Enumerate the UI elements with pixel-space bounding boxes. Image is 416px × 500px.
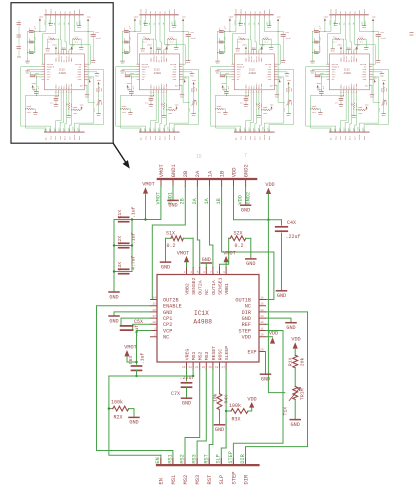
schematic thumbnail 1	[21, 8, 104, 140]
selection rectangle around thumbnail 1	[11, 3, 113, 144]
main enlarged schematic	[97, 163, 308, 484]
svg-text:7: 7	[244, 153, 247, 159]
thumbnail 1 extra left components	[17, 20, 22, 57]
svg-text:15: 15	[196, 154, 202, 160]
schematic thumbnail 3	[211, 8, 294, 140]
schematic thumbnail 4	[306, 8, 389, 140]
zoom arrow	[113, 143, 126, 163]
thumbnail 4 extra right mark	[410, 33, 414, 36]
schematic thumbnail 2	[116, 8, 199, 140]
